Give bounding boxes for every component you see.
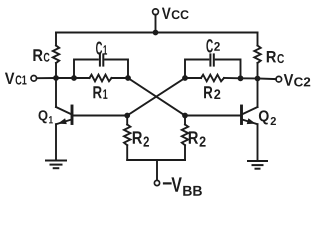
label Q2: [259, 110, 276, 125]
transistor Q1: [56, 106, 72, 161]
node VC1 junction: [53, 75, 59, 81]
terminal -VBB: [154, 180, 159, 185]
node C1 block left: [71, 75, 77, 81]
wire top VCC rail: [56, 32, 258, 34]
label R2 left base: [133, 131, 149, 146]
wire Q1 base node down to R2: [126, 116, 128, 125]
wire C2 right node to VC2 junction: [241, 77, 258, 79]
wire VC1 node down to Q1 collector: [55, 78, 57, 107]
label Q1: [39, 110, 53, 123]
label C1: [96, 41, 107, 54]
label -VBB: [171, 177, 201, 195]
label R1: [93, 86, 107, 99]
wire rail to right RC: [257, 33, 259, 46]
node C1 block right: [125, 75, 131, 81]
resistor R1: [90, 75, 112, 82]
wire rail to left RC: [55, 33, 57, 46]
node Q1 base junction: [124, 113, 130, 119]
label RC left: [33, 49, 49, 61]
wire C1 main line left: [74, 77, 90, 79]
wire bottom rail between R2 resistors: [127, 159, 185, 161]
label RC right: [267, 51, 284, 63]
wire Q2 base: [185, 115, 242, 117]
node VC2 junction: [255, 76, 261, 82]
label VC2: [284, 74, 311, 86]
wire VC1 terminal to junction: [37, 77, 56, 79]
node Q2 base junction: [182, 113, 188, 119]
wire RC left to VC1 node: [55, 63, 57, 78]
wire VC2 junction to terminal: [258, 78, 276, 81]
wire R1 to C1 block right node: [112, 77, 129, 79]
wire VC1 node to C1 block left node: [56, 77, 74, 79]
label R2 coupling: [204, 86, 220, 99]
transistor Q2: [242, 106, 258, 161]
minus sign of -VBB label: [164, 182, 171, 184]
wire VCC terminal to rail: [155, 15, 157, 33]
label R2 right base: [189, 131, 206, 146]
ground (Q2 emitter): [248, 161, 267, 169]
resistor RC left: [53, 46, 59, 64]
wire bottom rail to -VBB terminal: [156, 160, 158, 180]
wire cross-coupling C2 node to Q1 base: [127, 78, 185, 116]
wire R2 to C2 block right node: [224, 77, 241, 79]
resistor RC right: [254, 46, 260, 64]
node VCC rail junction: [153, 30, 159, 36]
capacitor C2: [209, 54, 211, 65]
wire R2 left to bottom rail: [126, 145, 128, 160]
node C2 block left: [182, 75, 188, 81]
resistor R2 (coupling): [201, 75, 224, 82]
wire cross-coupling C1 node to Q2 base: [128, 78, 185, 116]
resistor R2 (left base): [124, 125, 130, 146]
label VCC: [162, 8, 189, 19]
wire C1 loop left/top/right: [74, 60, 128, 79]
ground (Q1 emitter): [46, 161, 66, 169]
resistor R2 (right base): [182, 125, 188, 146]
wire C2 loop left/top/right: [185, 60, 241, 79]
label VC1: [5, 73, 27, 85]
wire C2 main line left: [185, 77, 201, 79]
power terminal VCC: [153, 9, 159, 15]
terminal VC1: [31, 76, 37, 82]
terminal VC2: [276, 76, 282, 82]
wire Q2 base node down to R2: [184, 116, 186, 125]
wire RC right to VC2 node: [257, 63, 259, 79]
wire Q1 base: [72, 115, 127, 117]
label C2: [206, 39, 219, 52]
capacitor C1: [99, 54, 101, 65]
node C2 block right: [238, 75, 244, 81]
wire VC2 node down to Q2 collector: [257, 79, 259, 108]
wire R2 right to bottom rail: [184, 145, 186, 160]
